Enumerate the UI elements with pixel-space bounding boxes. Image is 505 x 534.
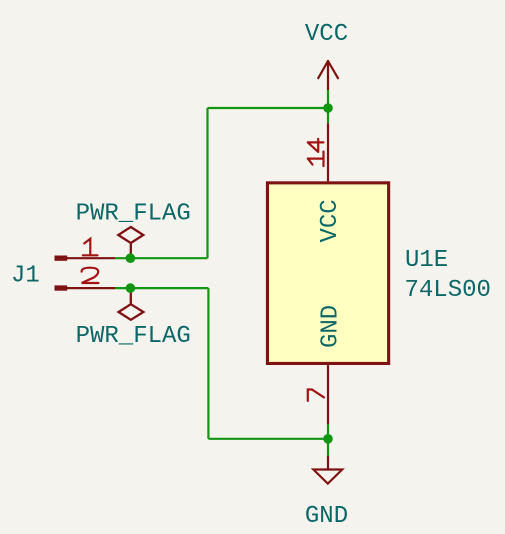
junction on pin 1 wire	[126, 253, 136, 263]
svg-text:74LS00: 74LS00	[405, 277, 491, 304]
power symbol GND	[313, 456, 342, 484]
wire right vertical to GND rail	[207, 288, 209, 439]
pin number 2	[82, 268, 99, 283]
svg-text:VCC: VCC	[305, 21, 348, 48]
connector J1 pin 1 line	[67, 257, 115, 259]
pin number 14	[308, 139, 324, 166]
wire pin 2 horizontal	[115, 287, 208, 289]
svg-text:U1E: U1E	[405, 247, 448, 274]
pin 14 line	[327, 123, 329, 181]
wire left vertical to pin 1	[206, 108, 208, 258]
junction on GND rail	[323, 434, 333, 444]
wire VCC rail horizontal	[208, 107, 329, 109]
pin number 7	[308, 390, 324, 401]
connector J1 pin 1 pad	[55, 256, 68, 261]
svg-text:PWR_FLAG: PWR_FLAG	[76, 323, 191, 350]
svg-text:GND: GND	[305, 503, 348, 530]
junction on VCC rail	[323, 103, 333, 113]
power symbol VCC	[318, 61, 338, 90]
pin number 1	[83, 239, 98, 256]
pin 7 line	[327, 365, 329, 424]
wire GND rail horizontal	[208, 438, 328, 440]
connector J1 pin 2 pad	[55, 285, 68, 290]
PWR_FLAG 2 symbol	[119, 288, 144, 320]
IC U1E body	[267, 183, 388, 364]
wire VCC vertical (power to pin 14)	[327, 90, 329, 123]
junction on pin 2 wire	[126, 283, 136, 293]
wire pin 7 to GND vertical	[327, 424, 329, 456]
svg-text:GND: GND	[317, 305, 344, 348]
svg-text:J1: J1	[11, 262, 40, 289]
svg-text:PWR_FLAG: PWR_FLAG	[76, 201, 191, 228]
PWR_FLAG 1 symbol	[118, 227, 143, 258]
wire pin 1 horizontal	[115, 257, 208, 259]
connector J1 pin 2 line	[67, 287, 115, 289]
svg-text:VCC: VCC	[317, 199, 344, 242]
